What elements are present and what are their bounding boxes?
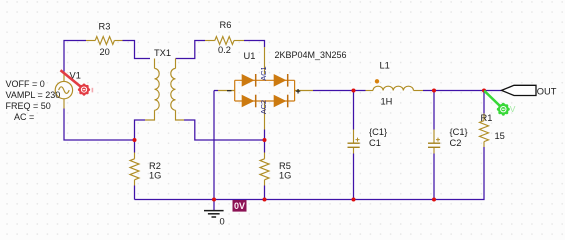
svg-text:20: 20 — [100, 47, 110, 57]
svg-text:1H: 1H — [381, 97, 393, 107]
svg-text:0: 0 — [220, 217, 225, 227]
svg-text:R6: R6 — [220, 20, 232, 30]
svg-text:1G: 1G — [279, 171, 291, 181]
svg-text:L1: L1 — [380, 61, 390, 71]
svg-text:{C1}: {C1} — [450, 127, 468, 137]
svg-text:FREQ = 50: FREQ = 50 — [6, 101, 51, 111]
svg-text:C2: C2 — [450, 138, 462, 148]
svg-text:V: V — [510, 104, 516, 114]
svg-text:AC =: AC = — [14, 112, 34, 122]
svg-text:R1: R1 — [481, 113, 493, 123]
svg-text:AC1: AC1 — [259, 66, 268, 80]
svg-text:VOFF = 0: VOFF = 0 — [6, 79, 45, 89]
svg-text:0.2: 0.2 — [218, 45, 231, 55]
svg-text:R3: R3 — [99, 22, 111, 32]
svg-text:VAMPL = 230: VAMPL = 230 — [6, 90, 61, 100]
svg-text:15: 15 — [495, 131, 505, 141]
svg-text:R5: R5 — [279, 161, 291, 171]
svg-text:R2: R2 — [149, 161, 161, 171]
svg-text:{C1}: {C1} — [369, 127, 387, 137]
svg-text:AC2: AC2 — [259, 100, 268, 114]
svg-text:OUT: OUT — [537, 86, 557, 96]
svg-text:2KBP04M_3N256: 2KBP04M_3N256 — [275, 50, 347, 60]
svg-text:1G: 1G — [149, 171, 161, 181]
svg-text:C1: C1 — [369, 138, 381, 148]
svg-text:0V: 0V — [234, 201, 245, 211]
svg-text:U1: U1 — [244, 51, 256, 61]
svg-text:TX1: TX1 — [154, 48, 171, 58]
